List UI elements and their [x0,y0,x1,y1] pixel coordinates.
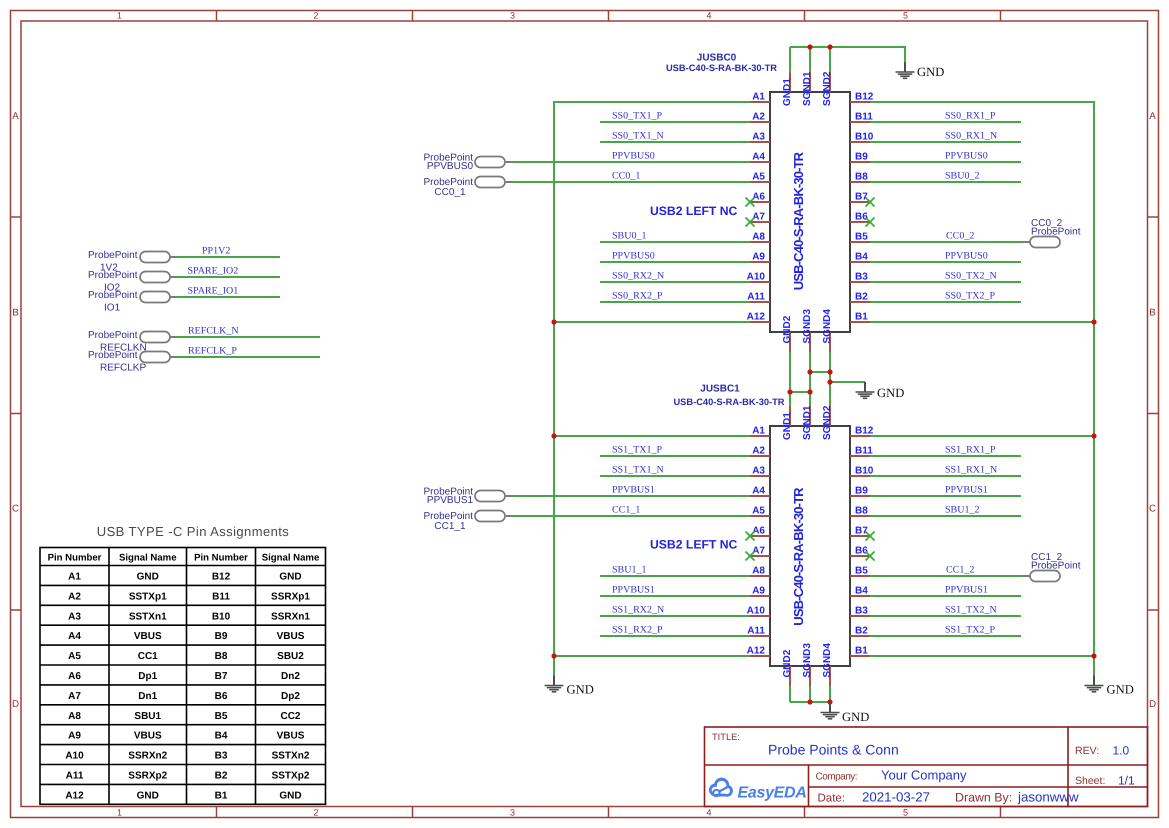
junction at SGND2 top [827,44,832,49]
svg-text:SS0_TX1_P: SS0_TX1_P [612,111,662,122]
svg-text:SPARE_IO1: SPARE_IO1 [188,286,239,297]
svg-text:1.0: 1.0 [1113,744,1130,758]
svg-text:jasonwww: jasonwww [1017,790,1079,805]
probe point SPARE_IO1 (IO1) [88,286,280,314]
svg-text:1/1: 1/1 [1118,774,1135,788]
svg-text:Pin Number: Pin Number [48,553,102,564]
wire SBU0_2 (B8) [870,181,1021,183]
svg-text:A5: A5 [752,172,765,183]
svg-text:A8: A8 [68,711,81,722]
svg-text:3: 3 [510,807,515,817]
svg-text:Dn2: Dn2 [281,671,300,682]
wire PPVBUS1 (A4) from probe point [514,495,750,497]
svg-text:Signal Name: Signal Name [119,553,177,564]
wire CC1_2 (B5) to probe point [870,575,1022,577]
pin B5 JUSBC0 [850,241,870,243]
pin B4 JUSBC0 [850,261,870,263]
junction SGND3/SGND4 [807,369,812,374]
pin SGND1 JUSBC0 [809,72,811,92]
svg-text:B5: B5 [855,232,868,243]
svg-text:A2: A2 [752,446,765,457]
svg-text:REFCLKP: REFCLKP [100,363,146,374]
svg-text:GND: GND [137,790,159,801]
svg-text:SSRXn1: SSRXn1 [271,611,310,622]
svg-text:GND1: GND1 [782,412,793,440]
pin B3 JUSBC1 [850,615,870,617]
svg-text:SGND2: SGND2 [822,71,833,106]
svg-text:PPVBUS1: PPVBUS1 [945,485,988,496]
svg-text:PPVBUS1: PPVBUS1 [612,485,655,496]
ground GND top right of JUSBC0 [896,62,945,79]
probe point PPVBUS1 [424,487,514,507]
wire CC0_2 (B5) to probe point [870,241,1022,243]
pin A7 JUSBC0 [750,221,770,223]
svg-text:Sheet:: Sheet: [1075,775,1105,787]
svg-text:A4: A4 [752,486,765,497]
svg-text:A11: A11 [747,292,765,303]
wire SS1_TX1_N (A3) [600,475,750,477]
wire PPVBUS0 (B4) [870,261,1021,263]
probe point REFCLK_P (REFCLKP) [88,346,320,374]
ground GND right bus [1085,676,1134,697]
pin SGND2 JUSBC1 [829,406,831,426]
svg-text:SSRXp1: SSRXp1 [271,591,310,602]
junction SGND4 gnd tap [827,379,832,384]
no-connect flag A7 JUSBC0 [746,218,755,227]
svg-text:A2: A2 [68,591,81,602]
svg-text:GND: GND [917,65,944,79]
svg-text:SS1_TX1_P: SS1_TX1_P [612,445,662,456]
svg-text:SGND3: SGND3 [802,643,813,678]
svg-text:ProbePoint: ProbePoint [88,270,138,281]
svg-text:B4: B4 [215,731,228,742]
svg-text:SS1_TX1_N: SS1_TX1_N [612,465,664,476]
svg-text:B8: B8 [855,506,868,517]
pin SGND4 JUSBC0 [829,332,831,352]
svg-text:B10: B10 [212,611,231,622]
pin B2 JUSBC1 [850,635,870,637]
svg-text:SS1_RX1_P: SS1_RX1_P [945,445,996,456]
pin A2 JUSBC1 [750,455,770,457]
svg-text:PPVBUS0: PPVBUS0 [945,151,988,162]
junction SGND4 bottom [827,699,832,704]
svg-text:B6: B6 [855,546,868,557]
probe point CC0_1 [424,177,514,199]
svg-text:SS0_RX1_N: SS0_RX1_N [945,131,997,142]
svg-text:4: 4 [706,11,711,21]
svg-text:CC0_1: CC0_1 [612,171,640,182]
wire SBU0_1 (A8) [600,241,750,243]
svg-text:B5: B5 [855,566,868,577]
svg-text:A1: A1 [752,426,765,437]
svg-text:A11: A11 [747,626,765,637]
svg-text:USB-C40-S-RA-BK-30-TR: USB-C40-S-RA-BK-30-TR [791,151,806,290]
pin A12 JUSBC1 [750,655,770,657]
svg-text:A3: A3 [68,611,81,622]
wire B1 JUSBC1 to right bus [870,655,1095,657]
svg-text:B2: B2 [855,292,868,303]
wire PPVBUS1 (B4) [870,595,1021,597]
svg-text:A4: A4 [68,631,81,642]
wire CC1_1 (A5) from probe point [514,515,750,517]
wire B12 JUSBC1 to right bus [870,435,1095,437]
svg-text:B7: B7 [215,671,228,682]
wire SS1_RX1_P (B11) [870,455,1021,457]
pin B11 JUSBC1 [850,455,870,457]
svg-text:1: 1 [117,11,122,21]
pin GND2 JUSBC1 [789,666,791,686]
svg-text:SS0_RX2_N: SS0_RX2_N [612,271,664,282]
svg-text:CC1: CC1 [138,651,158,662]
connector JUSBC0 [747,71,874,352]
svg-text:CC1_1: CC1_1 [612,505,640,516]
connector JUSBC1 body [770,426,850,666]
svg-text:A1: A1 [752,92,765,103]
svg-text:GND2: GND2 [782,315,793,343]
pin A9 JUSBC0 [750,261,770,263]
junction GND2 lower [787,389,792,394]
svg-text:C: C [1149,504,1156,515]
svg-text:REV:: REV: [1075,745,1099,757]
ground GND between connectors [856,382,905,400]
svg-text:A9: A9 [68,731,81,742]
svg-text:B1: B1 [855,312,868,323]
svg-text:B7: B7 [855,192,868,203]
svg-text:B: B [12,308,19,319]
svg-text:ProbePoint: ProbePoint [1031,227,1081,238]
svg-text:SGND4: SGND4 [822,309,833,344]
svg-text:VBUS: VBUS [277,731,305,742]
svg-text:B10: B10 [855,466,874,477]
svg-text:Dp2: Dp2 [281,691,300,702]
svg-text:SGND2: SGND2 [822,405,833,440]
svg-text:A9: A9 [752,252,765,263]
svg-text:5: 5 [903,807,908,817]
svg-text:SS0_TX2_P: SS0_TX2_P [945,291,995,302]
pin A8 JUSBC0 [750,241,770,243]
svg-text:B11: B11 [855,112,873,123]
svg-text:B9: B9 [855,152,868,163]
junction SGND3 lower [807,389,812,394]
svg-text:GND: GND [137,572,159,583]
wire SS0_TX2_N (B3) [870,281,1021,283]
title block [705,727,1148,807]
wire SS1_RX2_P (A11) [600,635,750,637]
pin A9 JUSBC1 [750,595,770,597]
svg-text:B9: B9 [855,486,868,497]
pin A4 JUSBC1 [750,495,770,497]
pin B1 JUSBC0 [850,321,870,323]
svg-text:SS1_RX2_N: SS1_RX2_N [612,605,664,616]
wire PPVBUS1 (B9) [870,495,1021,497]
svg-text:B1: B1 [855,646,868,657]
pin A3 JUSBC1 [750,475,770,477]
wire GND net top of JUSBC0 [790,46,905,72]
pin A10 JUSBC1 [750,615,770,617]
svg-text:B3: B3 [855,272,868,283]
svg-text:GND: GND [842,710,869,724]
svg-text:REFCLK_N: REFCLK_N [188,326,239,337]
no-connect flag B7 JUSBC1 [866,532,875,541]
svg-text:B4: B4 [855,586,868,597]
svg-text:PPVBUS0: PPVBUS0 [612,151,655,162]
junction SGND4 upper [827,369,832,374]
no-connect flag A6 JUSBC0 [746,198,755,207]
pin A11 JUSBC1 [750,635,770,637]
svg-text:GND: GND [279,790,301,801]
no-connect flag A6 JUSBC1 [746,532,755,541]
pin B3 JUSBC0 [850,281,870,283]
svg-text:GND2: GND2 [782,649,793,677]
wire SS0_RX1_P (B11) [870,121,1021,123]
svg-text:A7: A7 [68,691,81,702]
svg-text:Company:: Company: [816,772,858,783]
svg-text:A12: A12 [747,646,766,657]
svg-text:A9: A9 [752,586,765,597]
svg-text:B6: B6 [855,212,868,223]
svg-text:Date:: Date: [818,793,846,805]
svg-text:SBU2: SBU2 [277,651,304,662]
svg-text:SBU1_2: SBU1_2 [945,505,979,516]
pin assignment table [40,548,326,805]
wire B1 JUSBC0 to right bus [870,321,1095,323]
svg-text:EasyEDA: EasyEDA [738,785,807,802]
svg-text:B11: B11 [855,446,873,457]
probe point REFCLK_N (REFCLKN) [88,326,320,354]
pin A6 JUSBC0 [750,201,770,203]
junction left bus at A12 JUSBC0 [551,319,556,324]
svg-text:VBUS: VBUS [134,731,162,742]
wire B12 JUSBC0 to right bus [870,101,1095,103]
pin GND1 JUSBC0 [789,72,791,92]
svg-text:ProbePoint: ProbePoint [1031,561,1081,572]
pin B6 JUSBC0 [850,221,870,223]
svg-text:IO1: IO1 [104,303,121,314]
svg-text:REFCLK_P: REFCLK_P [188,346,237,357]
svg-text:CC0_2: CC0_2 [946,231,974,242]
probe point CC0_2 [1022,218,1081,248]
svg-text:B5: B5 [215,711,228,722]
probe point PPVBUS0 [424,153,514,173]
wire SS1_TX2_P (B2) [870,635,1021,637]
pin B9 JUSBC0 [850,161,870,163]
pin A6 JUSBC1 [750,535,770,537]
svg-text:B4: B4 [855,252,868,263]
pin A5 JUSBC1 [750,515,770,517]
pin SGND1 JUSBC1 [809,406,811,426]
junction right bus at B1 JUSBC1 [1091,653,1096,658]
svg-text:A12: A12 [747,312,766,323]
svg-text:SGND1: SGND1 [802,71,813,106]
junction right bus at B12 JUSBC1 [1091,433,1096,438]
svg-text:PPVBUS1: PPVBUS1 [945,585,988,596]
pin B8 JUSBC0 [850,181,870,183]
pin GND2 JUSBC0 [789,332,791,352]
svg-text:ProbePoint: ProbePoint [88,250,138,261]
svg-text:A6: A6 [68,671,81,682]
svg-text:SS1_TX2_P: SS1_TX2_P [945,625,995,636]
svg-text:USB TYPE -C Pin Assignments: USB TYPE -C Pin Assignments [97,524,290,539]
junction at SGND1 top [807,44,812,49]
junction right bus at B1 JUSBC0 [1091,319,1096,324]
pin B11 JUSBC0 [850,121,870,123]
svg-text:PPVBUS0: PPVBUS0 [945,251,988,262]
connector JUSBC0 body [770,92,850,332]
svg-text:B8: B8 [855,172,868,183]
wire SBU1_2 (B8) [870,515,1021,517]
svg-text:A10: A10 [65,751,84,762]
pin SGND4 JUSBC1 [829,666,831,686]
pin A12 JUSBC0 [750,321,770,323]
svg-text:A11: A11 [66,771,84,782]
svg-text:B12: B12 [212,572,231,583]
wire CC0_1 (A5) from probe point [514,181,750,183]
svg-text:A3: A3 [752,132,765,143]
svg-text:TITLE:: TITLE: [712,732,740,742]
wire SS1_RX1_N (B10) [870,475,1021,477]
pin A1 JUSBC0 [750,101,770,103]
svg-text:A2: A2 [752,112,765,123]
svg-text:A: A [12,111,19,122]
probe point PP1V2 (1V2) [88,246,280,274]
wire PPVBUS0 (A9) [600,261,750,263]
svg-text:SSTXp2: SSTXp2 [272,771,310,782]
svg-text:A7: A7 [752,546,765,557]
pin A3 JUSBC0 [750,141,770,143]
junction left bus at A12 JUSBC1 [551,653,556,658]
svg-text:SGND4: SGND4 [822,643,833,678]
svg-text:PP1V2: PP1V2 [202,246,230,257]
svg-text:SSTXn2: SSTXn2 [272,751,310,762]
svg-text:A8: A8 [752,566,765,577]
wire SS0_TX1_P (A2) [600,121,750,123]
no-connect flag A7 JUSBC1 [746,552,755,561]
pin B6 JUSBC1 [850,555,870,557]
svg-text:SSTXp1: SSTXp1 [129,591,167,602]
svg-text:JUSBC1: JUSBC1 [700,384,740,395]
probe point SPARE_IO2 (IO2) [88,266,280,294]
svg-text:B2: B2 [855,626,868,637]
wire PPVBUS1 (A9) [600,595,750,597]
svg-text:SBU1_1: SBU1_1 [612,565,646,576]
svg-text:B3: B3 [215,751,228,762]
wire SS0_RX2_N (A10) [600,281,750,283]
svg-text:CC2: CC2 [280,711,300,722]
svg-text:CC1_2: CC1_2 [946,565,974,576]
svg-text:CC1_1: CC1_1 [434,521,466,532]
pin B1 JUSBC1 [850,655,870,657]
svg-text:B7: B7 [855,526,868,537]
svg-text:SS1_RX1_N: SS1_RX1_N [945,465,997,476]
svg-text:A: A [1149,111,1156,122]
svg-text:SSRXn2: SSRXn2 [128,751,167,762]
pin B12 JUSBC0 [850,101,870,103]
wire right GND bus vertical [1093,101,1095,676]
svg-text:USB2 LEFT NC: USB2 LEFT NC [650,204,738,218]
svg-text:Pin Number: Pin Number [194,553,248,564]
svg-text:B12: B12 [855,426,874,437]
wire SS0_TX1_N (A3) [600,141,750,143]
svg-text:JUSBC0: JUSBC0 [697,53,737,64]
svg-text:SS1_TX2_N: SS1_TX2_N [945,605,997,616]
svg-text:Signal Name: Signal Name [262,553,320,564]
wire GND2/SGND3/SGND4 JUSBC1 to ground [790,686,830,702]
probe point CC1_1 [424,511,514,533]
wire left GND bus vertical [553,101,555,676]
pin B2 JUSBC0 [850,301,870,303]
wire A1 JUSBC0 to left bus [553,101,750,103]
svg-text:Your Company: Your Company [881,768,967,783]
svg-text:5: 5 [903,11,908,21]
no-connect flag B6 JUSBC0 [866,218,875,227]
svg-text:SS0_RX2_P: SS0_RX2_P [612,291,663,302]
wire SS0_TX2_P (B2) [870,301,1021,303]
svg-text:B9: B9 [215,631,228,642]
pin B10 JUSBC1 [850,475,870,477]
wire A12 JUSBC0 to left bus [553,321,750,323]
svg-text:SGND1: SGND1 [802,405,813,440]
svg-text:B1: B1 [215,790,228,801]
svg-text:A5: A5 [68,651,81,662]
svg-text:VBUS: VBUS [134,631,162,642]
wire A12 JUSBC1 to left bus [553,655,750,657]
svg-text:SSTXn1: SSTXn1 [129,611,167,622]
connector JUSBC1 [747,405,874,686]
svg-text:PPVBUS0: PPVBUS0 [612,251,655,262]
pin SGND2 JUSBC0 [829,72,831,92]
svg-text:SS0_TX1_N: SS0_TX1_N [612,131,664,142]
pin B5 JUSBC1 [850,575,870,577]
pin SGND3 JUSBC0 [809,332,811,352]
pin B12 JUSBC1 [850,435,870,437]
svg-text:B2: B2 [215,771,228,782]
svg-text:GND1: GND1 [782,78,793,106]
svg-text:GND: GND [1107,683,1134,697]
svg-text:GND: GND [279,572,301,583]
svg-text:ProbePoint: ProbePoint [88,330,138,341]
svg-text:USB-C40-S-RA-BK-30-TR: USB-C40-S-RA-BK-30-TR [666,63,777,73]
svg-text:CC0_1: CC0_1 [434,187,466,198]
wire PPVBUS0 (B9) [870,161,1021,163]
no-connect flag B6 JUSBC1 [866,552,875,561]
svg-text:PPVBUS1: PPVBUS1 [612,585,655,596]
pin B7 JUSBC0 [850,201,870,203]
junction left bus at A1 JUSBC1 [551,433,556,438]
svg-text:A5: A5 [752,506,765,517]
svg-text:PPVBUS0: PPVBUS0 [427,161,474,172]
svg-text:SBU1: SBU1 [134,711,161,722]
svg-text:SGND3: SGND3 [802,309,813,344]
wire SS1_TX1_P (A2) [600,455,750,457]
svg-text:C: C [12,504,19,515]
svg-text:A7: A7 [752,212,765,223]
svg-text:4: 4 [706,807,711,817]
wire SBU1_1 (A8) [600,575,750,577]
wire GND2/SGND3/SGND4 JUSBC0 to JUSBC1 verticals [790,352,865,406]
pin B10 JUSBC0 [850,141,870,143]
svg-text:2: 2 [313,807,318,817]
svg-text:B8: B8 [215,651,228,662]
svg-text:SPARE_IO2: SPARE_IO2 [188,266,239,277]
svg-text:2: 2 [313,11,318,21]
pin B9 JUSBC1 [850,495,870,497]
wire SS1_RX2_N (A10) [600,615,750,617]
svg-text:Probe Points & Conn: Probe Points & Conn [768,742,899,758]
svg-text:GND: GND [567,683,594,697]
svg-text:A10: A10 [747,606,766,617]
pin A8 JUSBC1 [750,575,770,577]
svg-text:SS0_RX1_P: SS0_RX1_P [945,111,996,122]
